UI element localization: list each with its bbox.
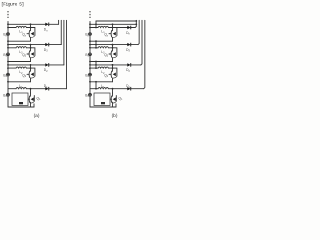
- svg-text:Q1: Q1: [119, 96, 124, 101]
- (b) inductor L3: [98, 47, 108, 48]
- (a) wire bus vertical 1: [58, 20, 60, 24]
- svg-text:D3: D3: [44, 48, 48, 53]
- (b) label D3: [126, 48, 130, 53]
- svg-text:Qn: Qn: [22, 33, 27, 38]
- (a) label Q3: [22, 53, 27, 58]
- (b) wire tap/diode line stage 3: [89, 64, 141, 66]
- (b) wire bus vertical 2: [138, 20, 139, 44]
- (b) transistor Q1: [110, 89, 116, 103]
- (a) inductor Ln: [16, 26, 26, 27]
- (a) transistor Qn: [27, 28, 35, 38]
- (b) diode D1: [127, 87, 130, 91]
- (a) wire source to return 3: [30, 78, 32, 82]
- (b) wire jog vertical stage 1: [95, 21, 97, 28]
- (b) battery B2: [89, 73, 92, 76]
- (a) controller box mark: [19, 102, 23, 104]
- (a) label D2: [44, 68, 48, 73]
- (a) inductor L3: [16, 47, 26, 48]
- (a) wire return line stage 2: [7, 61, 30, 63]
- (a) label Q2: [22, 73, 27, 78]
- (a) node bottom: [30, 88, 32, 90]
- (a) label Dn: [44, 28, 48, 33]
- (a) diode D3: [45, 43, 48, 47]
- (a) wire return line stage 3: [7, 81, 30, 83]
- (a) label Qn: [22, 33, 27, 38]
- (a) wire bus vertical 2: [60, 20, 62, 44]
- (b) transistor Qn: [109, 28, 117, 38]
- (a) label Ln: [19, 30, 23, 35]
- svg-text:(a): (a): [34, 113, 40, 119]
- (b) label Qn: [104, 33, 109, 38]
- (b) label D1: [126, 84, 130, 89]
- (b) wire bus vertical 4: [144, 20, 145, 88]
- (b) label Ln: [101, 30, 105, 35]
- (b) transistor Q2: [109, 68, 117, 78]
- (a) label B1: [3, 93, 7, 98]
- (a) wire source to return 2: [30, 58, 32, 62]
- (a) wire bottom rail line: [8, 104, 34, 107]
- circuit (b) left rail wire: [89, 21, 91, 107]
- (a) battery B2: [7, 73, 10, 76]
- (b) wire bottom inductor/diode line: [90, 88, 144, 90]
- (b) diode D2: [127, 63, 130, 67]
- title text: [1, 1, 24, 7]
- (a) label L1: [19, 84, 23, 89]
- (a) wire tap/diode line stage 1: [7, 23, 59, 25]
- (b) node bottom: [112, 88, 114, 90]
- (a) transistor Q1: [28, 89, 34, 103]
- circuit (a) dotted rail continuation: [7, 11, 9, 18]
- (a) label D1: [44, 84, 48, 89]
- (a) wire return line stage 1: [7, 40, 30, 42]
- svg-text:(b): (b): [112, 113, 118, 119]
- (b) wire tap/diode line stage 2: [89, 44, 138, 46]
- (b) label L2: [101, 70, 105, 75]
- caption (b): [112, 113, 118, 119]
- (a) label B2: [3, 73, 7, 78]
- (a) wire inductor line stage 2: [7, 47, 30, 49]
- (b) diode Dn: [127, 26, 130, 30]
- svg-text:Dn: Dn: [126, 31, 130, 36]
- (b) controller box: [94, 93, 110, 106]
- (b) wire source to return 3: [112, 78, 114, 82]
- (b) label Dn: [126, 31, 130, 36]
- svg-text:D1: D1: [126, 84, 130, 89]
- (b) wire inductor line stage 2: [89, 47, 112, 49]
- (a) wire tap/diode line stage 2: [7, 44, 61, 46]
- (a) label L2: [19, 70, 23, 75]
- svg-text:Q2: Q2: [104, 73, 109, 78]
- svg-text:[Figure 5]: [Figure 5]: [1, 1, 24, 7]
- circuit (a) left rail wire: [7, 21, 9, 107]
- (a) inductor L1: [16, 88, 26, 89]
- (b) label L1: [101, 84, 105, 89]
- (b) wire bus vertical 3: [141, 20, 142, 65]
- (b) node stage 1: [112, 23, 114, 28]
- (a) wire inductor line stage 3: [7, 67, 30, 69]
- (b) transistor Q3: [109, 48, 117, 58]
- (a) node stage 3: [30, 64, 32, 69]
- (b) battery B3: [89, 53, 92, 56]
- (a) diode Dn: [45, 23, 48, 27]
- (b) inductor Ln: [98, 26, 108, 27]
- svg-text:L1: L1: [101, 84, 105, 89]
- (a) transistor Q2: [27, 68, 35, 78]
- (b) wire return line stage 1: [89, 40, 112, 42]
- (b) wire jog vertical stage 3: [95, 62, 97, 69]
- svg-text:D2: D2: [44, 68, 48, 73]
- (a) wire inductor line stage 1: [7, 27, 30, 29]
- (b) wire inductor line stage 3: [89, 67, 112, 69]
- (b) wire return line stage 3: [89, 81, 112, 83]
- (b) battery B1: [89, 93, 92, 96]
- (b) wire source to return 1: [112, 37, 114, 41]
- (a) wire bus vertical 3: [63, 20, 65, 65]
- (a) wire source to return 1: [30, 37, 32, 41]
- (a) wire tap/diode line stage 3: [7, 64, 64, 66]
- (b) wire bottom rail line: [90, 104, 116, 107]
- (a) label B3: [3, 53, 7, 58]
- (a) battery B1: [7, 93, 10, 96]
- (b) diode D3: [127, 43, 130, 47]
- svg-text:Qn: Qn: [104, 33, 109, 38]
- circuit (b) dotted rail continuation: [89, 11, 91, 18]
- (b) label B3: [85, 53, 89, 58]
- svg-text:Dn: Dn: [44, 28, 48, 33]
- (b) label Q2: [104, 73, 109, 78]
- (a) inductor L2: [16, 67, 26, 68]
- (a) wire bottom diode to bus: [49, 88, 67, 90]
- (b) wire bus vertical 1: [135, 20, 136, 27]
- (b) wire tap line stage 1: [89, 23, 137, 25]
- (b) label B1: [85, 93, 89, 98]
- (a) label Bn: [3, 33, 7, 38]
- (b) node stage 2: [112, 44, 114, 49]
- (a) node stage 2: [30, 44, 32, 49]
- svg-text:L1: L1: [19, 84, 23, 89]
- (b) wire jog vertical stage 2: [95, 41, 97, 48]
- svg-text:Q1: Q1: [37, 96, 42, 101]
- (b) label Bn: [85, 33, 89, 38]
- (a) label D3: [44, 48, 48, 53]
- caption (a): [34, 113, 40, 119]
- (a) battery B3: [7, 53, 10, 56]
- (b) node stage 3: [112, 64, 114, 69]
- (a) wire bottom inductor/diode line: [8, 88, 45, 90]
- (b) wire source to return 2: [112, 58, 114, 62]
- (b) wire jog vertical stage 4: [95, 82, 97, 90]
- (a) diode D1: [45, 87, 48, 91]
- (a) battery Bn: [7, 33, 10, 36]
- svg-text:D2: D2: [126, 68, 130, 73]
- (a) label L3: [19, 50, 23, 55]
- svg-text:D3: D3: [126, 48, 130, 53]
- (b) battery Bn: [89, 33, 92, 36]
- (a) wire bus vertical 4: [66, 20, 68, 88]
- svg-text:Q2: Q2: [22, 73, 27, 78]
- (b) label D2: [126, 68, 130, 73]
- (b) label Q3: [104, 53, 109, 58]
- (a) diode D2: [45, 63, 48, 67]
- (b) inductor L2: [98, 67, 108, 68]
- (b) controller box mark: [101, 102, 105, 104]
- svg-text:Q3: Q3: [22, 53, 27, 58]
- (a) label Q1: [37, 96, 42, 101]
- svg-text:Q3: Q3: [104, 53, 109, 58]
- (b) label Q1: [119, 96, 124, 101]
- (a) controller box: [12, 93, 28, 106]
- (a) wire bottom source: [30, 102, 32, 107]
- (b) inductor L1: [98, 88, 108, 89]
- (b) wire return line stage 2: [89, 61, 112, 63]
- (b) wire bottom source: [112, 102, 114, 107]
- (a) transistor Q3: [27, 48, 35, 58]
- (b) label L3: [101, 50, 105, 55]
- (a) node stage 1: [30, 23, 32, 28]
- (b) label B2: [85, 73, 89, 78]
- (b) wire inductor/diode line stage 1: [89, 27, 135, 29]
- (b) wire elided return feed: [96, 20, 137, 22]
